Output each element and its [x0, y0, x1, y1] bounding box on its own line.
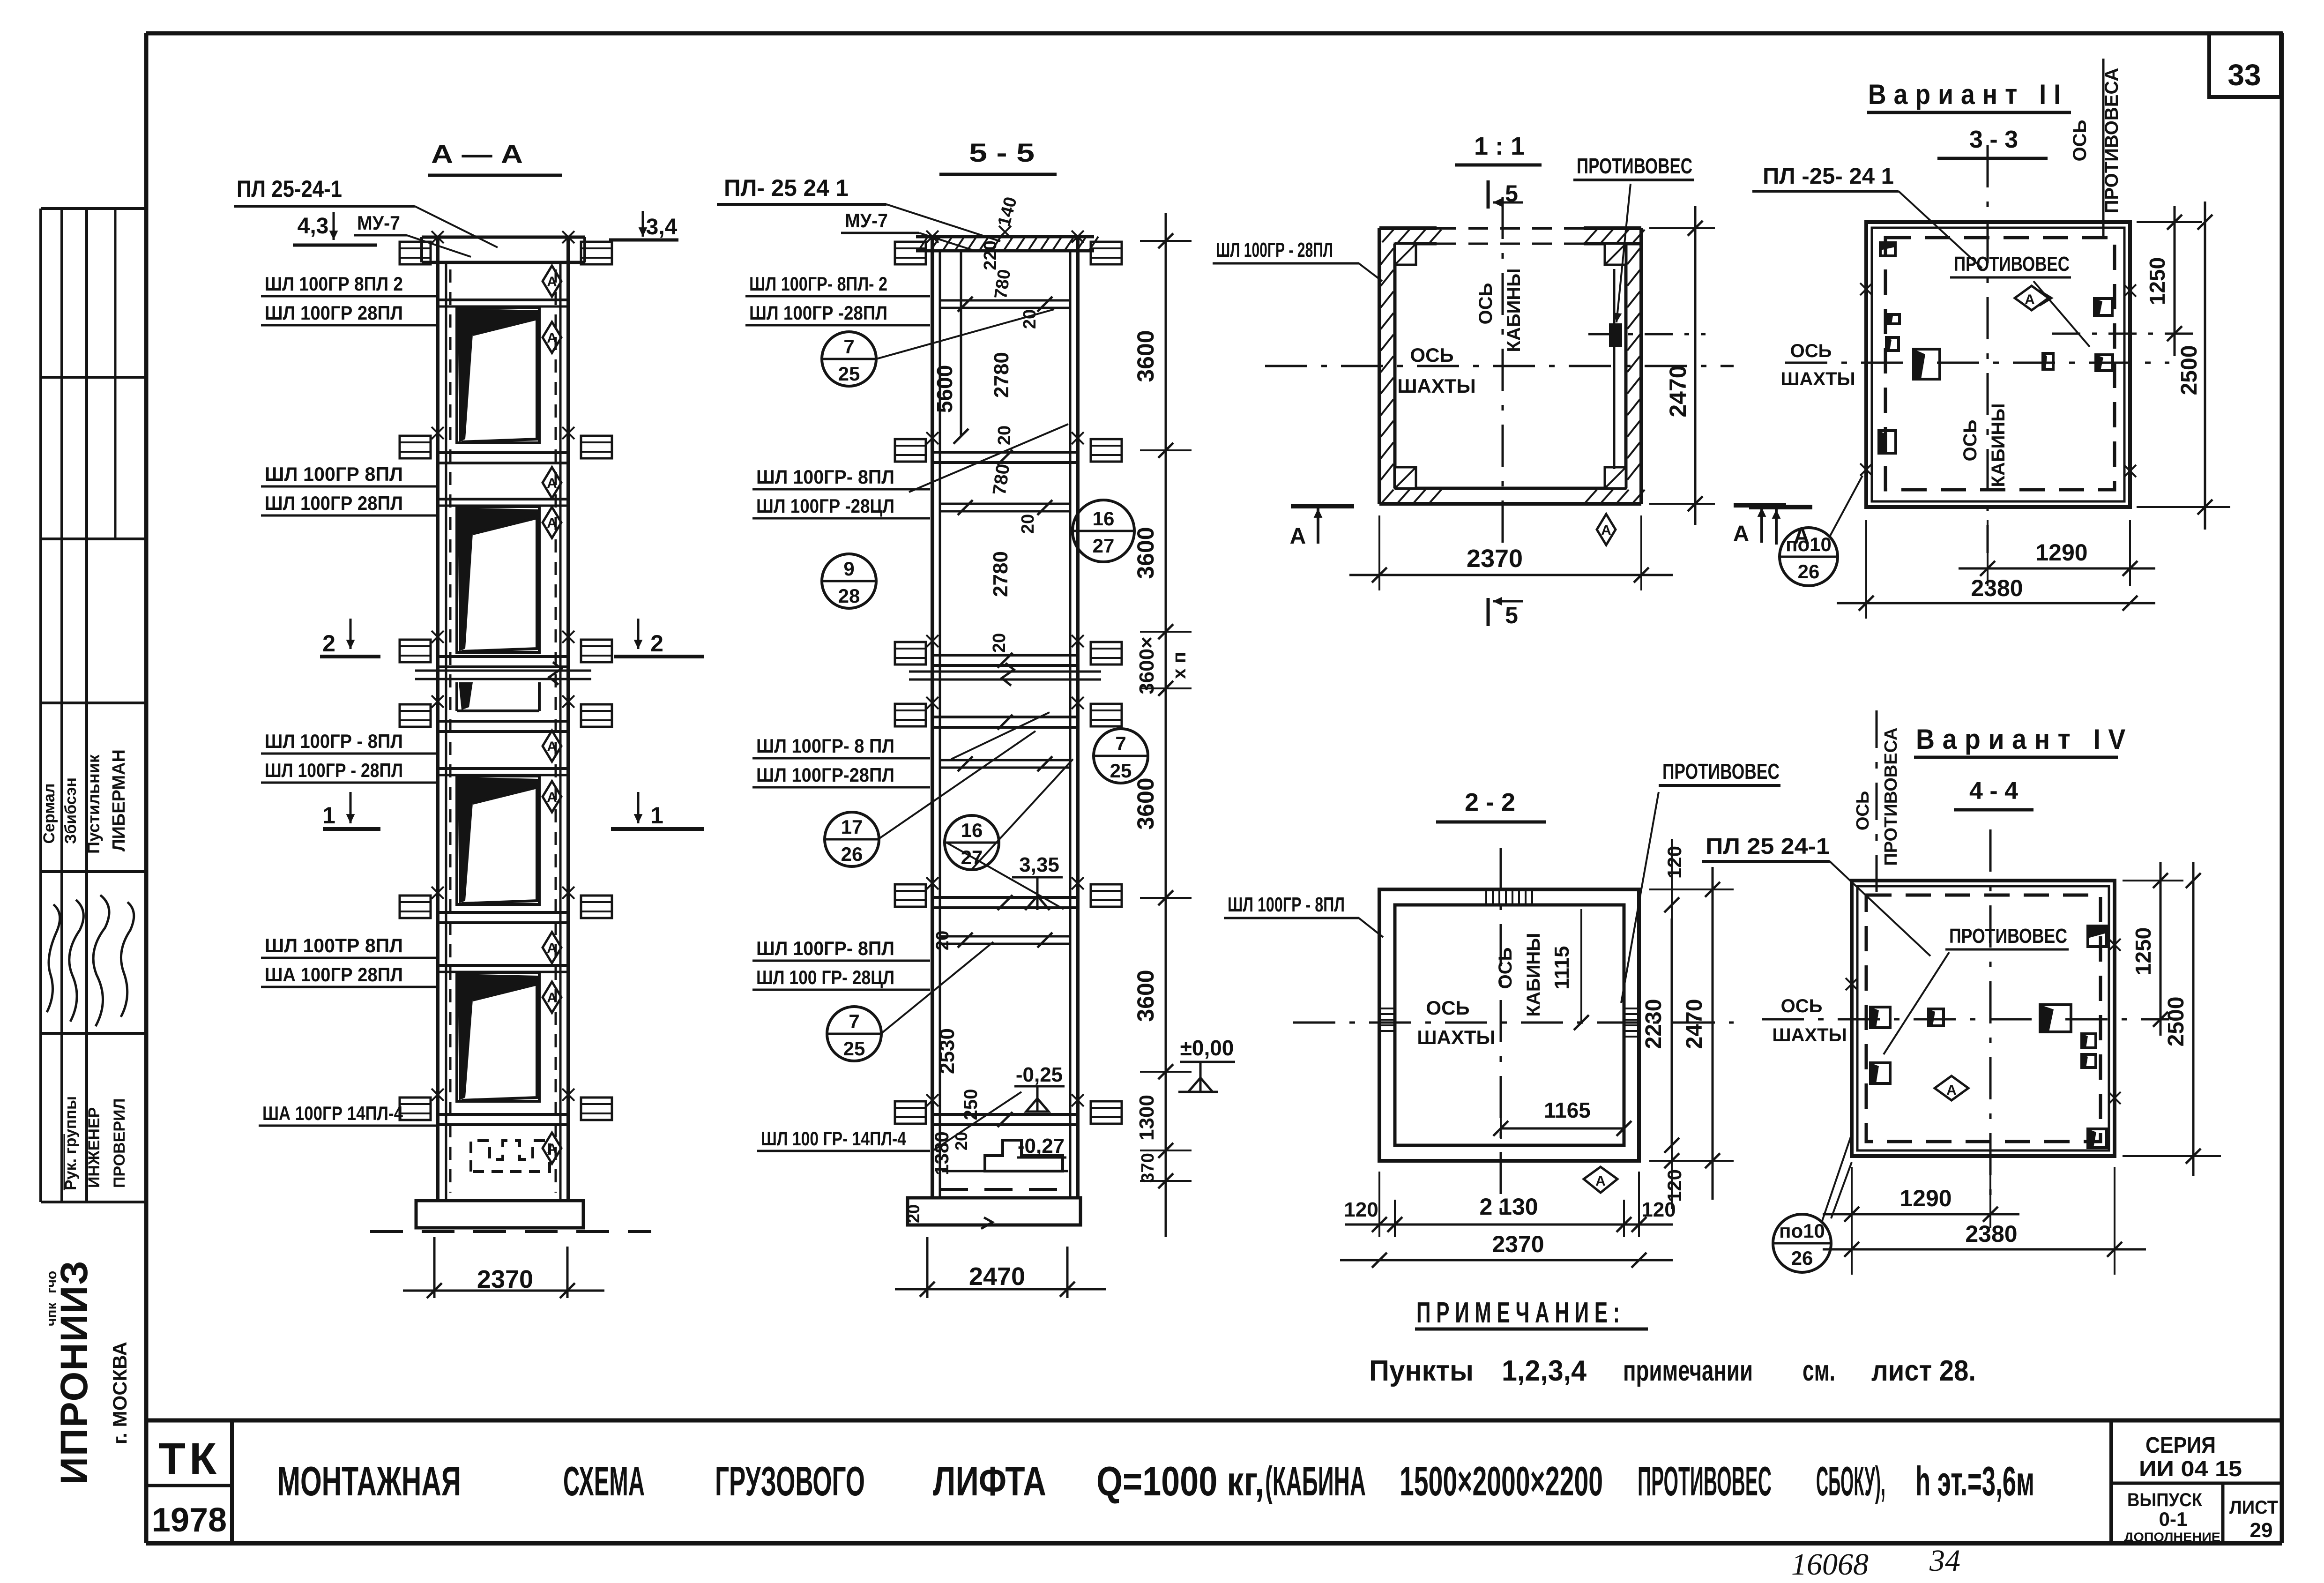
left stamp signatures: [47, 904, 60, 1012]
svg-text:ПЛ -25- 24 1: ПЛ -25- 24 1: [1763, 164, 1894, 189]
svg-text:А: А: [547, 790, 557, 805]
plan 2-2 right dim 2470: [1712, 867, 1714, 1200]
plan 2-2 outer wall: [1379, 889, 1639, 1161]
plan 3-3 anchor blocks: [2094, 299, 2112, 315]
A-A floor slab band: [438, 720, 568, 723]
svg-text:примечании: примечании: [1623, 1355, 1753, 1387]
A-A diamond badges: [543, 266, 561, 297]
svg-text:26: 26: [1798, 560, 1820, 582]
svg-text:1: 1: [322, 802, 335, 829]
svg-text:ПРОТИВОВЕСА: ПРОТИВОВЕСА: [2101, 68, 2122, 214]
plan 2-2 bottom dims 120 2130 120: [1378, 1172, 1380, 1237]
position circle 9/28: [822, 554, 876, 608]
plan 1-1 counterweight line: [1613, 269, 1616, 469]
svg-text:780: 780: [989, 463, 1014, 496]
svg-text:А: А: [1290, 524, 1306, 549]
svg-text:А: А: [1601, 523, 1611, 538]
plan 1-1 top wall corners: [1379, 226, 1437, 230]
svg-text:ПРОТИВОВЕС: ПРОТИВОВЕС: [1949, 925, 2067, 948]
svg-text:П Р И М Е Ч А Н И Е :: П Р И М Е Ч А Н И Е :: [1416, 1297, 1620, 1329]
svg-text:ШЛ 100ГР- 8ПЛ: ШЛ 100ГР- 8ПЛ: [756, 937, 894, 959]
plan 3-3 counterweight axis: [2102, 59, 2105, 239]
svg-text:±0,00: ±0,00: [1180, 1036, 1234, 1060]
svg-text:27: 27: [961, 846, 983, 868]
svg-text:ШЛ 100 ГР- 14ПЛ-4: ШЛ 100 ГР- 14ПЛ-4: [761, 1128, 907, 1150]
plan 1-1 left wall: [1378, 228, 1381, 504]
plan 3-3 outer walls: [1866, 222, 2130, 507]
A-A ground dashed line: [370, 1230, 651, 1233]
svg-text:Вариант II: Вариант II: [1868, 79, 2068, 110]
svg-text:Пункты: Пункты: [1369, 1355, 1474, 1387]
svg-text:Пустильник: Пустильник: [84, 754, 103, 854]
5-5 lintel lines: [940, 759, 1070, 762]
svg-text:16: 16: [961, 819, 983, 841]
svg-text:5: 5: [1505, 602, 1518, 628]
svg-text:ИНЖЕНЕР: ИНЖЕНЕР: [85, 1107, 103, 1188]
svg-text:ПРОТИВОВЕСА: ПРОТИВОВЕСА: [1881, 727, 1901, 866]
svg-text:ШЛ 100ГР 8ПЛ: ШЛ 100ГР 8ПЛ: [265, 463, 403, 485]
svg-text:4 - 4: 4 - 4: [1969, 777, 2018, 805]
5-5 pit step pedestal: [985, 1140, 1063, 1171]
svg-text:3600×: 3600×: [1135, 636, 1158, 694]
plan 1-1 bottom wall: [1379, 502, 1641, 506]
svg-text:3600: 3600: [1132, 330, 1159, 382]
svg-text:ОСЬ: ОСЬ: [2070, 120, 2090, 162]
svg-text:А: А: [547, 274, 557, 290]
svg-text:2380: 2380: [1965, 1221, 2017, 1247]
position circle 16/27 right: [1073, 500, 1134, 562]
svg-text:х п: х п: [1169, 652, 1190, 679]
svg-text:29: 29: [2250, 1519, 2273, 1542]
svg-text:20: 20: [990, 633, 1009, 653]
position circle 7/25 lower: [827, 1007, 881, 1061]
svg-text:3,35: 3,35: [1019, 853, 1059, 876]
5-5 floor beam: [932, 451, 1078, 454]
TK box: [230, 1420, 234, 1543]
svg-text:1500×2000×2200: 1500×2000×2200: [1400, 1458, 1603, 1504]
svg-text:7: 7: [1115, 732, 1126, 754]
svg-text:3600: 3600: [1132, 970, 1159, 1022]
svg-text:h эт.=3,6м: h эт.=3,6м: [1915, 1458, 2034, 1504]
plan 4-4 outer walls: [1852, 881, 2115, 1156]
svg-text:2500: 2500: [2177, 345, 2202, 396]
svg-text:0-1: 0-1: [2159, 1508, 2188, 1530]
svg-text:2 130: 2 130: [1479, 1194, 1538, 1220]
svg-text:2370: 2370: [1467, 545, 1523, 573]
svg-text:220: 220: [981, 240, 1000, 270]
svg-text:34: 34: [1929, 1544, 1960, 1578]
svg-text:1,2,3,4: 1,2,3,4: [1502, 1355, 1587, 1387]
A-A floor slab band: [438, 655, 568, 658]
svg-text:26: 26: [1791, 1247, 1813, 1269]
svg-text:ОСЬ: ОСЬ: [1853, 791, 1873, 830]
svg-text:ШЛ 100ГР- 8 ПЛ: ШЛ 100ГР- 8 ПЛ: [756, 735, 894, 757]
svg-text:ША 100ГР 28ПЛ: ША 100ГР 28ПЛ: [265, 963, 403, 986]
svg-text:ШАХТЫ: ШАХТЫ: [1780, 369, 1855, 389]
svg-text:2370: 2370: [477, 1265, 533, 1293]
plan 4-4 inner dashed wall: [1866, 895, 2101, 1142]
A-A door opening: [457, 973, 539, 1101]
svg-text:250: 250: [961, 1089, 981, 1120]
plan 4-4 counterweight axis: [1876, 710, 1878, 904]
5-5 lintel lines: [940, 503, 1070, 505]
plan 4-4 anchor blocks: [1870, 1007, 1890, 1028]
5-5 right dimension chain: [1165, 213, 1167, 1237]
svg-text:1 : 1: 1 : 1: [1474, 132, 1525, 160]
position circle po10/26: [1780, 528, 1838, 586]
5-5 bottom dimension 2470: [926, 1237, 929, 1298]
svg-text:370: 370: [1138, 1153, 1158, 1182]
plan 4-4 dimension 2500: [2123, 1155, 2221, 1157]
plan 2-2 centerlines: [1293, 1022, 1734, 1024]
svg-text:2: 2: [650, 630, 663, 657]
svg-text:по10: по10: [1786, 533, 1832, 555]
5-5 lintel lines: [940, 299, 1070, 302]
svg-text:2780: 2780: [989, 551, 1012, 597]
svg-text:ОСЬ: ОСЬ: [1495, 948, 1516, 989]
svg-text:КАБИНЫ: КАБИНЫ: [1523, 933, 1544, 1017]
plan 1-1 centerline horizontal: [1265, 365, 1734, 367]
svg-text:2: 2: [322, 630, 335, 657]
svg-text:ПРОТИВОВЕС: ПРОТИВОВЕС: [1662, 759, 1780, 784]
plan 2-2 inner wall: [1395, 905, 1624, 1145]
svg-text:ШЛ 100ГР- 8ПЛ- 2: ШЛ 100ГР- 8ПЛ- 2: [749, 273, 887, 295]
svg-text:26: 26: [841, 843, 863, 865]
svg-text:Збибсэн: Збибсэн: [62, 777, 80, 844]
plan 3-3 A rotated diamond: [2015, 286, 2048, 310]
svg-text:33: 33: [2227, 58, 2261, 92]
svg-text:1380: 1380: [931, 1131, 953, 1175]
plan 4-4 centerlines: [1762, 1018, 2169, 1021]
plan 4-4 dimension 1290: [1851, 1167, 1853, 1275]
svg-text:ОСЬ: ОСЬ: [1781, 996, 1823, 1016]
plan 1-1 right wall: [1639, 228, 1643, 504]
svg-text:КАБИНЫ: КАБИНЫ: [1988, 403, 2009, 487]
svg-text:СЕРИЯ: СЕРИЯ: [2145, 1433, 2216, 1458]
svg-text:7: 7: [849, 1010, 859, 1032]
svg-text:ПРОТИВОВЕС: ПРОТИВОВЕС: [1638, 1458, 1772, 1504]
svg-text:120: 120: [1641, 1198, 1676, 1221]
svg-text:ДОПОЛНЕНИЕ: ДОПОЛНЕНИЕ: [2124, 1530, 2220, 1544]
svg-text:А: А: [547, 941, 557, 956]
5-5 leader diagonals: [876, 309, 1054, 359]
svg-text:ПРОВЕРИЛ: ПРОВЕРИЛ: [111, 1098, 128, 1188]
plan 3-3 counterweight dashed axis: [2052, 333, 2202, 335]
plan 4-4 dimension 2380: [2114, 1167, 2115, 1275]
svg-text:16068: 16068: [1791, 1547, 1869, 1582]
A-A shaft outer walls: [436, 237, 439, 1201]
svg-text:ШЛ 100ТР 8ПЛ: ШЛ 100ТР 8ПЛ: [265, 934, 403, 956]
svg-text:А: А: [547, 990, 557, 1006]
svg-text:-0,25: -0,25: [1016, 1063, 1063, 1086]
5-5 floor beam: [932, 1113, 1078, 1116]
5-5 top slab hatched: [916, 235, 1094, 239]
A-A bottom dimension 2370: [433, 1237, 436, 1298]
svg-text:25: 25: [1110, 760, 1132, 782]
svg-text:20: 20: [904, 1204, 923, 1223]
svg-text:ЛИСТ: ЛИСТ: [2229, 1497, 2278, 1518]
svg-text:ПЛ 25-24-1: ПЛ 25-24-1: [237, 176, 342, 202]
svg-text:2380: 2380: [1971, 575, 2023, 601]
svg-text:ОСЬ: ОСЬ: [1426, 997, 1469, 1019]
svg-text:А: А: [547, 330, 557, 346]
svg-text:МОНТАЖНАЯ: МОНТАЖНАЯ: [277, 1458, 461, 1504]
svg-text:ША 100ГР 14ПЛ-4: ША 100ГР 14ПЛ-4: [262, 1102, 403, 1124]
A-A door opening: [457, 507, 539, 652]
plan 3-3 dimension 2500: [2137, 506, 2230, 508]
plan 3-3 dimension 1290: [1987, 520, 1989, 586]
svg-text:ПРОТИВОВЕС: ПРОТИВОВЕС: [1954, 253, 2070, 276]
position circle 7/25 right: [1094, 729, 1148, 783]
plan 2-2 left comb hatch: [1379, 1008, 1395, 1009]
A-A open door leaf dark: [458, 974, 538, 1100]
svg-text:см.: см.: [1803, 1355, 1835, 1387]
position circle 7/25 upper: [822, 332, 876, 386]
svg-text:ЛИФТА: ЛИФТА: [933, 1458, 1046, 1504]
svg-text:20: 20: [933, 931, 953, 950]
left stamp table grid: [39, 209, 42, 1202]
plan 3-3 edge xmarks: [1860, 283, 1872, 295]
svg-text:2 - 2: 2 - 2: [1465, 788, 1515, 816]
svg-text:2230: 2230: [1641, 999, 1666, 1049]
svg-text:20: 20: [1018, 514, 1038, 534]
svg-text:1290: 1290: [2035, 539, 2087, 566]
sheet border frame: [146, 31, 2282, 36]
plan 2-2 bottom dim 2370: [1340, 1259, 1673, 1262]
plan 1-1 A arrow right: [1749, 505, 1812, 509]
plan 2-2 right comb hatch: [1624, 1008, 1639, 1009]
svg-text:20: 20: [995, 426, 1014, 445]
A-A break line: [415, 670, 591, 672]
svg-text:А: А: [1595, 1173, 1606, 1189]
svg-text:(КАБИНА: (КАБИНА: [1265, 1458, 1366, 1504]
svg-text:3,4: 3,4: [646, 215, 678, 239]
A-A door opening: [457, 307, 539, 443]
plan 4-4 dimension 1250: [2123, 880, 2183, 881]
plan 2-2 top comb hatch: [1485, 889, 1487, 905]
svg-text:17: 17: [841, 816, 863, 838]
svg-text:ШЛ 100ГР-28ПЛ: ШЛ 100ГР-28ПЛ: [756, 764, 894, 786]
A-A lintel line: [438, 767, 568, 770]
svg-text:1250: 1250: [2145, 257, 2169, 305]
svg-text:ШАХТЫ: ШАХТЫ: [1417, 1026, 1495, 1048]
svg-text:120: 120: [1663, 1169, 1685, 1202]
position circle po10/26 lower: [1773, 1214, 1831, 1272]
svg-text:ШЛ 100 ГР- 28ЦЛ: ШЛ 100 ГР- 28ЦЛ: [756, 966, 894, 988]
svg-text:ИИ 04 15: ИИ 04 15: [2139, 1456, 2242, 1481]
svg-text:ШЛ 100ГР -28ПЛ: ШЛ 100ГР -28ПЛ: [749, 302, 887, 324]
svg-text:27: 27: [1093, 535, 1115, 557]
5-5 lintel lines: [940, 935, 1070, 938]
svg-text:А: А: [2025, 292, 2035, 307]
svg-text:А: А: [1733, 522, 1750, 546]
plan 1-1 top door dashed lines: [1437, 227, 1584, 230]
svg-text:ГРУЗОВОГО: ГРУЗОВОГО: [715, 1458, 865, 1504]
svg-text:2500: 2500: [2164, 997, 2189, 1047]
plan 3-3 dimension 1250: [2137, 221, 2202, 223]
plan 2-2 right dim 2230: [1671, 918, 1673, 1145]
svg-text:2370: 2370: [1492, 1231, 1544, 1257]
svg-text:МУ-7: МУ-7: [845, 209, 888, 231]
plan 1-1 bottom dimension 2370: [1378, 515, 1380, 590]
svg-text:780: 780: [991, 268, 1014, 300]
svg-text:г. МОСКВА: г. МОСКВА: [109, 1342, 131, 1444]
5-5 floor beam: [932, 654, 1078, 657]
plan 1-1 centerline vertical: [1502, 197, 1504, 544]
sheet number box 33: [2209, 33, 2281, 97]
5-5 shaft walls: [931, 237, 934, 1198]
svg-text:ОСЬ: ОСЬ: [1960, 420, 1981, 462]
svg-text:МУ-7: МУ-7: [357, 212, 400, 234]
svg-text:4,3: 4,3: [298, 214, 329, 239]
A-A guide rail dashed lines: [449, 269, 452, 1193]
svg-text:120: 120: [1663, 846, 1685, 879]
svg-text:5 - 5: 5 - 5: [969, 138, 1035, 167]
svg-text:ШЛ 100ГР - 8ПЛ: ШЛ 100ГР - 8ПЛ: [265, 730, 403, 752]
svg-text:ВЫПУСК: ВЫПУСК: [2127, 1490, 2203, 1510]
plan 1-1 A diamond: [1597, 514, 1616, 545]
svg-text:2780: 2780: [990, 352, 1013, 398]
svg-text:А — А: А — А: [431, 139, 523, 169]
svg-text:7: 7: [843, 336, 854, 358]
A-A lintel line: [438, 498, 568, 500]
A-A open door leaf dark: [458, 777, 538, 904]
svg-text:гчо: гчо: [44, 1271, 60, 1293]
svg-text:ШАХТЫ: ШАХТЫ: [1397, 375, 1475, 397]
svg-text:ШАХТЫ: ШАХТЫ: [1772, 1025, 1847, 1045]
svg-text:ШЛ 100ГР -28ЦЛ: ШЛ 100ГР -28ЦЛ: [756, 495, 894, 517]
svg-text:ОСЬ: ОСЬ: [1410, 344, 1453, 366]
svg-text:1978: 1978: [152, 1501, 227, 1539]
svg-text:Q=1000 кг,: Q=1000 кг,: [1096, 1458, 1264, 1504]
svg-text:А: А: [547, 515, 557, 531]
svg-text:2470: 2470: [1665, 365, 1691, 417]
A-A floor slab band: [438, 1113, 568, 1116]
5-5 base plinth: [908, 1198, 1080, 1225]
A-A door opening: [455, 682, 458, 711]
svg-text:ШЛ 100ГР- 8ПЛ: ШЛ 100ГР- 8ПЛ: [756, 466, 894, 488]
svg-text:ШЛ 100ГР - 28ПЛ: ШЛ 100ГР - 28ПЛ: [1216, 239, 1333, 261]
svg-text:1290: 1290: [1899, 1185, 1952, 1211]
5-5 machine room line 5600: [960, 251, 962, 436]
plan 1-1 corner posts: [1395, 244, 1416, 265]
svg-text:ЛИБЕРМАН: ЛИБЕРМАН: [109, 749, 129, 851]
A-A open door leaf dark: [458, 508, 538, 651]
plan 3-3 inner dashed wall: [1885, 238, 2115, 490]
svg-text:А: А: [547, 1141, 557, 1157]
plan 3-3 centerlines: [1785, 362, 2169, 364]
plan 1-1 A arrow left: [1291, 504, 1354, 508]
svg-text:ПЛ 25 24-1: ПЛ 25 24-1: [1706, 834, 1830, 859]
svg-text:1300: 1300: [1135, 1095, 1158, 1141]
svg-text:1250: 1250: [2131, 927, 2155, 975]
A-A base plinth: [416, 1201, 583, 1228]
svg-text:ШЛ 100ГР 8ПЛ 2: ШЛ 100ГР 8ПЛ 2: [265, 273, 403, 295]
svg-text:по10: по10: [1779, 1220, 1825, 1242]
svg-text:лист 28.: лист 28.: [1871, 1355, 1976, 1387]
plan 2-2 A diamond: [1584, 1167, 1617, 1193]
svg-text:3600: 3600: [1132, 527, 1159, 579]
svg-text:Сермал: Сермал: [40, 784, 58, 844]
svg-text:А: А: [547, 739, 557, 754]
svg-text:16: 16: [1093, 508, 1115, 530]
plan 4-4 edge xmarks: [2108, 939, 2121, 951]
svg-text:СБОКУ),: СБОКУ),: [1816, 1458, 1885, 1504]
plan 4-4 A rotated diamond: [1935, 1076, 1968, 1100]
svg-text:ПЛ- 25 24 1: ПЛ- 25 24 1: [724, 175, 849, 201]
svg-text:Вариант IV: Вариант IV: [1916, 724, 2133, 755]
svg-text:20: 20: [952, 1132, 971, 1150]
A-A lintel line: [438, 964, 568, 967]
title block frame: [146, 1419, 2282, 1423]
svg-text:25: 25: [838, 363, 860, 385]
svg-text:20: 20: [1020, 309, 1040, 329]
svg-text:2470: 2470: [1682, 999, 1707, 1049]
A-A top slab side stubs: [400, 242, 431, 264]
A-A floor slab band: [438, 911, 568, 914]
svg-text:120: 120: [1344, 1198, 1378, 1221]
svg-text:1165: 1165: [1544, 1098, 1591, 1122]
svg-text:ШЛ 100ГР - 8ПЛ: ШЛ 100ГР - 8ПЛ: [1228, 893, 1345, 916]
position circle 17/26: [825, 812, 879, 866]
position circle 16/27 mid: [945, 815, 999, 870]
5-5 top slab side stubs: [895, 242, 926, 264]
svg-text:-0,27: -0,27: [1018, 1135, 1065, 1157]
svg-text:5600: 5600: [932, 365, 957, 413]
svg-text:ОСЬ: ОСЬ: [1475, 283, 1496, 325]
svg-text:25: 25: [843, 1038, 865, 1060]
svg-text:СХЕМА: СХЕМА: [563, 1458, 645, 1504]
svg-text:А: А: [547, 476, 557, 491]
svg-text:ОСЬ: ОСЬ: [1790, 341, 1832, 361]
plan 3-3 A arrow: [1734, 503, 1786, 508]
plan 1-1 bottom wall corner hatch: [1382, 490, 1393, 502]
svg-text:1: 1: [650, 802, 663, 829]
A-A shaft top slab: [422, 236, 585, 239]
svg-text:чпк: чпк: [44, 1302, 60, 1326]
plan 1-1 right dimension 2470: [1649, 227, 1715, 229]
series box: [2109, 1420, 2113, 1543]
svg-text:28: 28: [838, 585, 860, 607]
A-A door opening: [457, 776, 539, 904]
5-5 break line: [909, 671, 1101, 673]
svg-text:9: 9: [843, 558, 854, 580]
svg-text:ПРОТИВОВЕС: ПРОТИВОВЕС: [1577, 154, 1692, 178]
A-A pit buffers dashed: [471, 1141, 550, 1172]
svg-text:2530: 2530: [936, 1028, 959, 1074]
5-5 floor beam: [932, 896, 1078, 899]
svg-text:ШЛ 100ГР 28ПЛ: ШЛ 100ГР 28ПЛ: [265, 302, 403, 324]
svg-text:2470: 2470: [969, 1262, 1025, 1291]
svg-text:А: А: [1946, 1083, 1957, 1098]
5-5 pit bottom dashed: [940, 1188, 1070, 1191]
A-A lintel line: [438, 299, 568, 301]
svg-text:3 - 3: 3 - 3: [1969, 126, 2018, 153]
svg-text:1115: 1115: [1550, 946, 1573, 989]
svg-text:3600: 3600: [1132, 777, 1159, 829]
A-A open door leaf dark: [459, 682, 473, 710]
svg-text:ШЛ 100ГР 28ПЛ: ШЛ 100ГР 28ПЛ: [265, 492, 403, 514]
A-A shaft inner wall lines: [445, 262, 447, 1201]
svg-text:ШЛ 100ГР - 28ПЛ: ШЛ 100ГР - 28ПЛ: [265, 759, 403, 781]
plan 3-3 dimension 2380: [1865, 520, 1867, 619]
A-A open door leaf dark: [458, 308, 538, 442]
svg-text:КАБИНЫ: КАБИНЫ: [1504, 269, 1524, 352]
A-A floor slab band: [438, 451, 568, 454]
svg-text:ТК: ТК: [158, 1434, 220, 1484]
5-5 floor beam: [932, 716, 1078, 718]
